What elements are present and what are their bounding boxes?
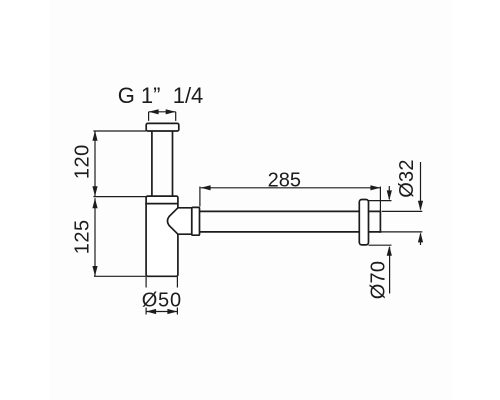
svg-text:G 1” 1/4: G 1” 1/4 (118, 83, 204, 108)
svg-text:Ø32: Ø32 (396, 159, 418, 197)
svg-text:285: 285 (268, 169, 301, 191)
svg-text:120: 120 (72, 144, 94, 179)
svg-text:Ø50: Ø50 (142, 290, 182, 312)
svg-text:Ø70: Ø70 (368, 261, 390, 299)
svg-text:125: 125 (72, 219, 94, 254)
